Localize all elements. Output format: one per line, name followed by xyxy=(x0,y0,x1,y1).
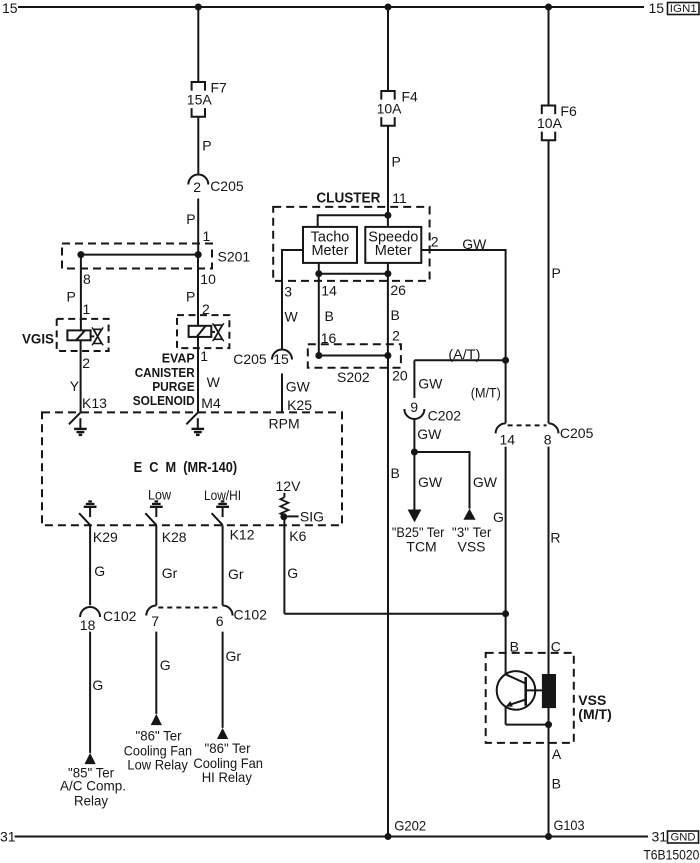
svg-text:P: P xyxy=(186,289,195,305)
svg-text:1: 1 xyxy=(83,301,91,317)
svg-text:S201: S201 xyxy=(218,249,251,265)
label G (wire to A/C relay) xyxy=(92,677,103,693)
svg-text:E C M (MR-140): E C M (MR-140) xyxy=(134,460,238,476)
label P (wire S201-VGIS) xyxy=(67,289,76,305)
svg-text:14: 14 xyxy=(500,432,516,448)
wire cluster supply to tacho meter xyxy=(318,214,388,227)
svg-text:TCM: TCM xyxy=(406,539,436,555)
svg-text:IGN1: IGN1 xyxy=(670,3,697,15)
label 15 (left end of bus 15) xyxy=(2,0,18,16)
svg-text:11: 11 xyxy=(392,190,407,206)
svg-text:K12: K12 xyxy=(230,527,255,543)
label 15 (right end of bus 15) xyxy=(649,0,665,16)
label GW (wire speedo out) xyxy=(462,236,487,252)
svg-text:GW: GW xyxy=(418,474,443,490)
pin M4 (ECM) xyxy=(201,395,221,411)
label GW (wire to TCM) xyxy=(418,474,443,490)
svg-text:S202: S202 xyxy=(337,369,370,385)
pin 20 (S202 output) xyxy=(392,367,408,383)
svg-text:Low Relay: Low Relay xyxy=(127,757,187,773)
driver output K28 (ECM, fan low) xyxy=(145,501,162,525)
ground symbol K13 xyxy=(74,418,87,435)
svg-text:C205: C205 xyxy=(210,178,244,194)
label SIG (ECM speed signal) xyxy=(287,508,324,524)
IGN1 terminal box xyxy=(668,3,700,16)
svg-text:20: 20 xyxy=(392,367,408,383)
label VSS (M/T) xyxy=(578,692,611,722)
svg-text:2: 2 xyxy=(193,179,201,195)
label W (wire EVAP-ECM) xyxy=(207,374,221,390)
label P (wire S201-EVAP) xyxy=(186,289,195,305)
svg-text:P: P xyxy=(202,138,211,154)
label B (wire 26-S202) xyxy=(391,307,400,323)
svg-text:SOLENOID: SOLENOID xyxy=(133,394,195,408)
wire fuse F6 to connector C205 pin 8 xyxy=(548,140,550,423)
ground switch K13 (inside ECM) xyxy=(69,412,81,424)
label B (wire 20-G202) xyxy=(391,465,400,481)
arrow to cooling fan low relay xyxy=(151,714,162,725)
connector C202 pin 9 xyxy=(404,399,461,424)
label G (wire K6) xyxy=(287,565,298,581)
wire C205 pin 2 to splice S201 xyxy=(197,199,199,255)
svg-text:EVAP: EVAP xyxy=(162,352,195,366)
label B (base wire) xyxy=(510,639,519,655)
svg-text:"86" Ter: "86" Ter xyxy=(136,727,182,743)
pin 1 (S201 input) xyxy=(203,228,211,244)
svg-text:Low: Low xyxy=(148,486,172,502)
label "85" Ter A/C Comp. Relay xyxy=(60,764,126,808)
wire bus15 to fuse F6 xyxy=(548,7,550,106)
wire cluster pin 14 to S202 xyxy=(318,274,320,356)
ground switch M4 (inside ECM) xyxy=(186,412,198,424)
wire tacho meter output (pin 3) xyxy=(282,249,303,349)
svg-text:B: B xyxy=(391,307,400,323)
svg-text:2: 2 xyxy=(82,355,90,371)
pin 26 (cluster) xyxy=(390,282,406,298)
label RPM (ECM input) xyxy=(269,416,300,432)
label Gr (wire K28-C102) xyxy=(162,565,178,581)
svg-text:C102: C102 xyxy=(103,608,137,624)
svg-text:7: 7 xyxy=(151,613,159,629)
svg-text:Gr: Gr xyxy=(228,566,244,582)
svg-text:15: 15 xyxy=(273,351,289,367)
wire speedo meter bottom stub xyxy=(387,263,389,274)
label 31 (right end of bus 31) xyxy=(652,829,668,845)
svg-text:G: G xyxy=(160,657,171,673)
label P (wire C205-S201) xyxy=(186,211,195,227)
svg-text:G: G xyxy=(92,677,103,693)
ground node G103 xyxy=(545,817,585,840)
junction on bus 15 at F7 branch xyxy=(195,4,202,11)
wire S201 pin 10 to EVAP solenoid xyxy=(197,255,199,326)
label B (wire VSS-G103) xyxy=(552,776,561,792)
svg-text:Meter: Meter xyxy=(375,243,412,259)
label Low xyxy=(148,486,172,502)
label "B25" Ter TCM xyxy=(392,524,445,555)
svg-text:P: P xyxy=(186,211,195,227)
label "3" Ter VSS xyxy=(452,524,492,555)
pin 2 (speedo output) xyxy=(431,234,439,250)
label GW (wire below C202) xyxy=(417,426,442,442)
svg-text:G: G xyxy=(94,563,105,579)
pin K28 (ECM) xyxy=(162,529,187,545)
svg-text:Low/HI: Low/HI xyxy=(204,487,241,503)
label (A/T) xyxy=(448,346,480,362)
pin 2 (VGIS out) xyxy=(82,355,90,371)
junction tacho ground xyxy=(315,270,322,277)
label E C M (MR-140) xyxy=(134,460,238,476)
junction on bus 15 at F6 branch xyxy=(545,4,552,11)
junction S201 right xyxy=(195,251,202,258)
svg-text:Y: Y xyxy=(70,378,80,394)
svg-text:F4: F4 xyxy=(402,89,419,105)
wire VSS to ground G103 xyxy=(548,725,550,837)
svg-text:Gr: Gr xyxy=(226,648,242,664)
driver output K12 (ECM, fan hi) xyxy=(212,501,229,525)
label Y (wire VGIS-ECM) xyxy=(70,378,80,394)
bus 31 (ground rail) xyxy=(15,836,648,838)
driver output K29 (ECM, A/C relay) xyxy=(79,501,96,525)
svg-text:GW: GW xyxy=(417,426,442,442)
pin 14 (cluster) xyxy=(321,283,337,299)
pin 8 (S201 to VGIS) xyxy=(83,271,91,287)
svg-text:K6: K6 xyxy=(289,528,306,544)
label W (wire tacho-C205) xyxy=(285,309,299,325)
wire A/T tap to connector C205 pin 14 xyxy=(505,360,507,423)
fuse F4 10A xyxy=(377,89,418,126)
wire bus15 to fuse F4 xyxy=(387,7,389,91)
fuse F6 10A xyxy=(537,103,577,140)
arrow from VSS terminal 3 xyxy=(463,509,475,520)
svg-text:P: P xyxy=(392,154,401,170)
wire bus15 to fuse F7 xyxy=(197,7,199,82)
wire cluster supply to speedo meter xyxy=(387,215,389,227)
wire ECM K28 to C102 pin 7 xyxy=(155,525,157,605)
pin 10 (S201 to EVAP) xyxy=(200,271,216,287)
VSS sensing element xyxy=(543,675,555,707)
svg-text:GW: GW xyxy=(286,378,311,394)
svg-text:VSS: VSS xyxy=(458,539,486,555)
svg-text:(M/T): (M/T) xyxy=(578,706,611,722)
svg-text:10A: 10A xyxy=(377,101,403,117)
svg-text:2: 2 xyxy=(392,327,400,343)
junction S202 right xyxy=(384,352,391,359)
svg-text:K25: K25 xyxy=(287,397,312,413)
transistor Q1 (VSS hall output) xyxy=(497,671,549,724)
junction S201 left xyxy=(77,251,84,258)
VSS (M/T) sensor box xyxy=(486,653,574,743)
junction speedo ground xyxy=(384,270,391,277)
svg-text:9: 9 xyxy=(410,399,418,415)
label Gr (wire to fan HI relay) xyxy=(226,648,242,664)
junction A/T tap xyxy=(502,357,509,364)
connector C205 pins 14/8 xyxy=(496,423,594,447)
label (M/T) xyxy=(471,385,501,401)
svg-text:B: B xyxy=(325,308,334,324)
wire C102 pin 7 to fan low relay xyxy=(155,632,157,714)
wire cluster pin 26 to S202 xyxy=(387,274,389,356)
wire S202 pin 20 to ground G202 xyxy=(387,356,389,837)
svg-text:VGIS: VGIS xyxy=(22,331,54,347)
arrow to cooling fan HI relay xyxy=(217,728,228,739)
svg-text:B: B xyxy=(552,776,561,792)
svg-text:Gr: Gr xyxy=(162,565,178,581)
svg-text:P: P xyxy=(552,265,561,281)
svg-text:3: 3 xyxy=(284,283,292,299)
svg-text:1: 1 xyxy=(200,348,208,364)
cluster box xyxy=(273,207,429,281)
solenoid VGIS valve xyxy=(91,327,104,345)
svg-text:26: 26 xyxy=(390,282,406,298)
svg-text:15: 15 xyxy=(649,0,665,16)
svg-text:14: 14 xyxy=(321,283,337,299)
svg-text:(M/T): (M/T) xyxy=(471,385,501,401)
pin K12 (ECM) xyxy=(230,527,255,543)
svg-text:G: G xyxy=(493,509,504,525)
ECM (MR-140) module box xyxy=(42,412,342,525)
svg-text:8: 8 xyxy=(544,432,552,448)
label G (wire K29-C102) xyxy=(94,563,105,579)
svg-text:GW: GW xyxy=(462,236,487,252)
svg-text:31: 31 xyxy=(652,829,668,845)
label 12V xyxy=(276,478,302,494)
pin 3 (cluster) xyxy=(284,283,292,299)
label B (wire 14-S202) xyxy=(325,308,334,324)
svg-text:10: 10 xyxy=(200,271,216,287)
wire C102 pin 6 to fan HI relay xyxy=(222,632,224,728)
label G (wire pin14) xyxy=(493,509,504,525)
label Low/HI xyxy=(204,487,241,503)
wire VGIS to ECM pin K13 xyxy=(80,340,82,412)
wire C205 pin 14 to VSS transistor base xyxy=(505,447,507,675)
svg-text:P: P xyxy=(67,289,76,305)
svg-text:G103: G103 xyxy=(554,817,585,833)
wire C205 pin 8 to VSS collector xyxy=(548,447,550,725)
solenoid EVAP valve xyxy=(211,323,224,341)
svg-text:K13: K13 xyxy=(82,395,107,411)
svg-text:B: B xyxy=(391,465,400,481)
arrow to A/C compressor relay xyxy=(85,753,96,764)
wire ECM K29 to C102 pin 18 xyxy=(89,525,91,605)
solenoid EVAP box xyxy=(177,315,229,348)
label G (wire to fan low relay) xyxy=(160,657,171,673)
junction on bus 15 at F4 branch xyxy=(385,4,392,11)
svg-text:F7: F7 xyxy=(211,80,228,96)
ground symbol M4 xyxy=(192,418,205,435)
svg-text:CANISTER: CANISTER xyxy=(135,366,195,380)
label Speedo Meter xyxy=(368,229,418,258)
wire splice S201 internal xyxy=(81,254,198,256)
junction TCM/VSS split xyxy=(411,449,418,456)
wire A/T branch xyxy=(414,360,505,398)
pin K25 (ECM) xyxy=(287,397,312,413)
pin 1 (EVAP out) xyxy=(200,348,208,364)
svg-text:"86" Ter: "86" Ter xyxy=(205,740,251,756)
svg-text:CLUSTER: CLUSTER xyxy=(316,191,380,207)
wire ECM K12 to C102 pin 6 xyxy=(222,525,224,605)
svg-text:Meter: Meter xyxy=(311,243,348,259)
label CLUSTER xyxy=(316,191,380,207)
wire fuse F7 to connector C205 pin 2 xyxy=(197,117,199,174)
wire cluster ground link xyxy=(319,273,388,275)
label 31 (left end of bus 31) xyxy=(0,829,16,845)
junction emitter to collector wire xyxy=(545,721,552,728)
svg-text:15A: 15A xyxy=(187,92,213,108)
svg-text:31: 31 xyxy=(0,829,16,845)
resistor 12V pull-up (ECM internal) xyxy=(280,493,288,516)
label P (wire F7-C205) xyxy=(202,138,211,154)
connector C205 pin 15 xyxy=(233,350,292,368)
svg-text:C202: C202 xyxy=(428,408,462,424)
label Tacho Meter xyxy=(311,229,350,258)
pin K29 (ECM) xyxy=(93,529,118,545)
svg-text:6: 6 xyxy=(216,613,224,629)
svg-text:W: W xyxy=(285,309,299,325)
svg-text:HI Relay: HI Relay xyxy=(202,769,252,785)
svg-text:A/C Comp.: A/C Comp. xyxy=(60,778,126,794)
connector C102 pins 7/6 xyxy=(146,606,267,630)
svg-text:A: A xyxy=(552,746,562,762)
junction SIG node xyxy=(280,513,287,520)
wire split to VSS sense branch xyxy=(414,451,469,509)
svg-text:F6: F6 xyxy=(560,103,577,119)
wire splice S202 internal xyxy=(319,355,388,357)
svg-text:R: R xyxy=(550,530,560,546)
pin 1 (VGIS) xyxy=(83,301,91,317)
wire speedo meter output xyxy=(421,249,505,360)
fuse F7 15A xyxy=(187,80,227,117)
svg-text:T6B15020: T6B15020 xyxy=(643,848,699,863)
svg-text:18: 18 xyxy=(80,617,96,633)
pin 16 (S202) xyxy=(321,330,337,346)
svg-text:15: 15 xyxy=(2,0,18,16)
splice S201 box xyxy=(62,244,212,269)
label "86" Ter Cooling Fan HI Relay xyxy=(193,740,263,785)
label VGIS xyxy=(22,331,54,347)
svg-text:SIG: SIG xyxy=(300,508,324,524)
svg-text:K28: K28 xyxy=(162,529,187,545)
svg-text:8: 8 xyxy=(83,271,91,287)
arrow to TCM terminal B25 xyxy=(408,510,422,523)
label "86" Ter Cooling Fan Low Relay xyxy=(124,727,192,772)
solenoid VGIS box xyxy=(57,319,109,351)
svg-text:PURGE: PURGE xyxy=(152,380,195,394)
wire ECM pin K6 to VSS base wire xyxy=(284,517,505,614)
splice S202 box xyxy=(308,344,401,368)
svg-text:GW: GW xyxy=(473,474,498,490)
svg-text:2: 2 xyxy=(431,234,439,250)
svg-text:G202: G202 xyxy=(394,818,426,834)
svg-text:12V: 12V xyxy=(276,478,302,494)
speedo meter box xyxy=(365,227,421,263)
wire tacho meter bottom stub xyxy=(318,263,320,274)
junction S202 left xyxy=(315,352,322,359)
svg-text:M4: M4 xyxy=(201,395,221,411)
label EVAP CANISTER PURGE SOLENOID xyxy=(133,352,195,409)
pin A (VSS) xyxy=(552,746,562,762)
label S201 xyxy=(218,249,251,265)
bus 15 (IGN1 supply rail) xyxy=(18,6,644,8)
solenoid EVAP coil xyxy=(189,326,212,337)
connector C205 pin 2 xyxy=(188,175,244,196)
label C (collector wire) xyxy=(551,639,561,655)
wire S201 pin 8 to VGIS xyxy=(80,255,82,331)
svg-text:K29: K29 xyxy=(93,529,118,545)
wire C205 pin 15 to ECM pin K25 xyxy=(281,374,283,413)
svg-text:G: G xyxy=(287,565,298,581)
wire EVAP to ECM pin M4 xyxy=(197,337,199,413)
svg-text:(A/T): (A/T) xyxy=(448,346,480,362)
pin K6 (ECM) xyxy=(289,528,306,544)
svg-text:GW: GW xyxy=(418,376,443,392)
wire fuse F4 to cluster pin 11 xyxy=(387,126,389,215)
svg-text:C205: C205 xyxy=(233,351,267,367)
svg-text:C102: C102 xyxy=(234,607,268,623)
label GW (wire to VSS) xyxy=(473,474,498,490)
svg-text:GND: GND xyxy=(671,832,696,844)
junction cluster supply xyxy=(384,212,391,219)
svg-text:RPM: RPM xyxy=(269,416,300,432)
junction SIG tap on base wire xyxy=(502,610,509,617)
tacho meter box xyxy=(303,227,357,263)
pin K13 (ECM) xyxy=(82,395,107,411)
connector C102 pin 18 xyxy=(80,607,137,633)
label S202 xyxy=(337,369,370,385)
svg-text:C205: C205 xyxy=(560,425,594,441)
label R (wire pin 8) xyxy=(550,530,560,546)
label P (wire F4-cluster) xyxy=(392,154,401,170)
svg-text:1: 1 xyxy=(203,228,211,244)
label GW (wire C205-K25) xyxy=(286,378,311,394)
label Gr (wire K12-C102) xyxy=(228,566,244,582)
wire C202 pin 9 to TCM/VSS split xyxy=(413,419,415,510)
label T6B15020 (diagram id) xyxy=(643,848,699,863)
ground node G202 xyxy=(385,818,427,841)
solenoid VGIS coil xyxy=(67,330,90,340)
svg-text:Relay: Relay xyxy=(74,792,108,808)
wire C102 pin 18 to A/C relay xyxy=(89,632,91,753)
pin 11 (cluster) xyxy=(392,190,407,206)
pin 2 (S202) xyxy=(392,327,400,343)
pin 2 (EVAP) xyxy=(202,301,210,317)
label P (wire F6-C205) xyxy=(552,265,561,281)
svg-text:W: W xyxy=(207,374,221,390)
GND terminal box xyxy=(668,831,699,844)
label GW (wire A/T-C202) xyxy=(418,376,443,392)
svg-text:10A: 10A xyxy=(537,115,563,131)
